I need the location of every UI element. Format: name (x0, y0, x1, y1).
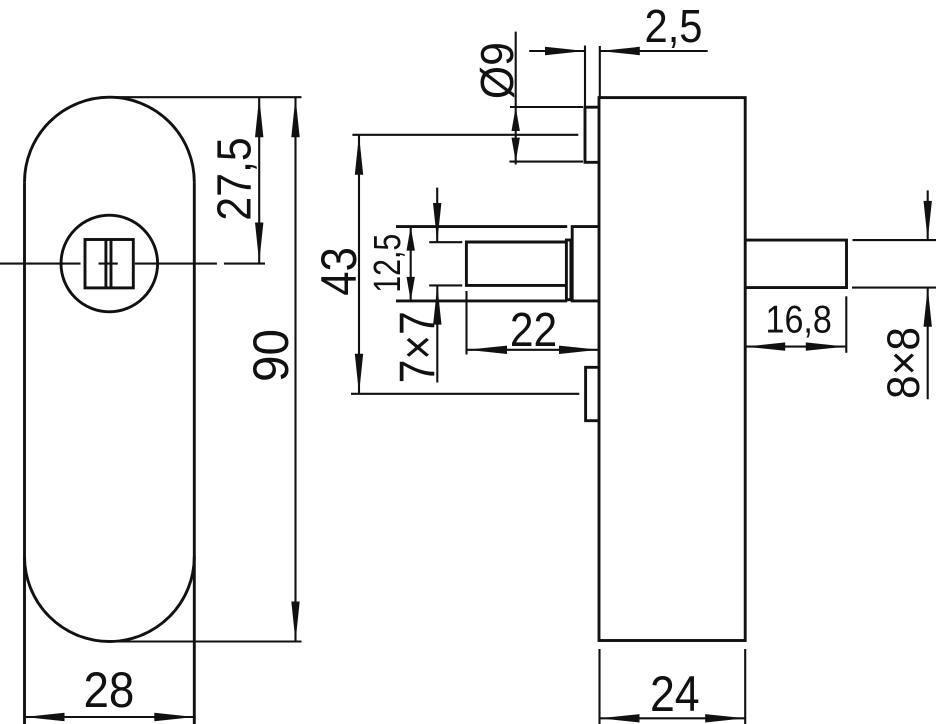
arrow 12,5 down (407, 277, 415, 301)
svg-text:16,8: 16,8 (766, 299, 832, 342)
arrow 24 right (705, 714, 745, 722)
arrow 43 down (355, 354, 363, 394)
arrow 7x7 down (433, 203, 441, 242)
bottom stud (586, 367, 599, 420)
arrow O9 up (512, 107, 520, 131)
svg-text:43: 43 (311, 247, 367, 296)
arrow 27,5 up (255, 97, 263, 137)
square spindle hole 8x8 (85, 240, 133, 288)
horizontal centerline (0, 263, 265, 265)
43 extension lines (351, 135, 579, 394)
arrow 2,5 left-pointing (600, 47, 640, 55)
spindle end cap (566, 240, 571, 300)
arrow 16,8 right (806, 342, 846, 350)
arrow 22 left (467, 346, 507, 354)
svg-text:8×8: 8×8 (878, 327, 929, 399)
dimension 7x7 lower arrow line (436, 285, 438, 382)
dimension 2,5 extension lines (585, 46, 600, 108)
bottom extension line (107, 640, 302, 642)
dimension O9 line (515, 32, 517, 165)
dimension 90 line (294, 97, 296, 641)
arrow 8x8 down (924, 201, 932, 240)
top extension line (112, 96, 302, 98)
svg-text:28: 28 (83, 662, 134, 718)
svg-text:Ø9: Ø9 (471, 42, 523, 99)
dimension 8x8 upper arrow line (927, 190, 929, 240)
7x7 extension dashes (429, 242, 462, 285)
arrow O9 down (512, 138, 520, 162)
arrow 28 left (25, 713, 65, 721)
square spindle 8x8 (right) (745, 240, 846, 288)
rosette boss circle (61, 215, 158, 312)
svg-text:7×7: 7×7 (390, 311, 446, 383)
svg-text:90: 90 (243, 329, 299, 382)
dimension 28 line (25, 716, 195, 718)
arrow 27,5 down (255, 223, 263, 263)
arrow 28 right (154, 713, 194, 721)
svg-text:27,5: 27,5 (209, 137, 262, 221)
arrow 8x8 up (924, 288, 932, 327)
svg-text:22: 22 (510, 304, 557, 357)
dimension 16,8 line (745, 346, 846, 348)
dimension 7x7 upper arrow line (436, 188, 438, 243)
spindle 7x7 inner rectangle (466, 242, 565, 285)
dimension 8x8 lower arrow line (927, 288, 929, 400)
16,8 extension line (845, 296, 847, 353)
dimension 2,5 lines (529, 50, 708, 52)
dimension 12,5 line (410, 227, 412, 301)
dimension 22 line (467, 349, 599, 351)
arrow 90 up (291, 97, 299, 137)
arrow 7x7 up (433, 285, 441, 324)
arrow 2,5 right-pointing (545, 47, 585, 55)
arrow 24 left (600, 714, 640, 722)
arrow 22 right (559, 346, 599, 354)
24 extension lines (600, 649, 746, 724)
dimension 24 line (600, 717, 746, 719)
arrow 90 down (291, 602, 299, 642)
spindle slot lines (106, 240, 111, 288)
plate outline (side view 24x90) (599, 98, 745, 641)
svg-text:2,5: 2,5 (645, 0, 703, 52)
dimension 43 line (358, 135, 360, 394)
rosette stadium outline (front view 28x90) (25, 97, 195, 724)
top stud (O9 x 2,5) (585, 107, 599, 162)
arrow 12,5 up (407, 227, 415, 251)
22 left extension line (465, 291, 467, 355)
neck flange (572, 227, 599, 301)
svg-text:12,5: 12,5 (367, 234, 409, 293)
O9 extension lines (510, 107, 584, 162)
svg-text:24: 24 (650, 666, 700, 722)
neck cylinder lines (12,5) (396, 227, 567, 301)
arrow 43 up (355, 135, 363, 175)
8x8 extension lines (852, 240, 936, 288)
arrow 16,8 left (745, 342, 785, 350)
dimension 27,5 line (258, 97, 260, 262)
